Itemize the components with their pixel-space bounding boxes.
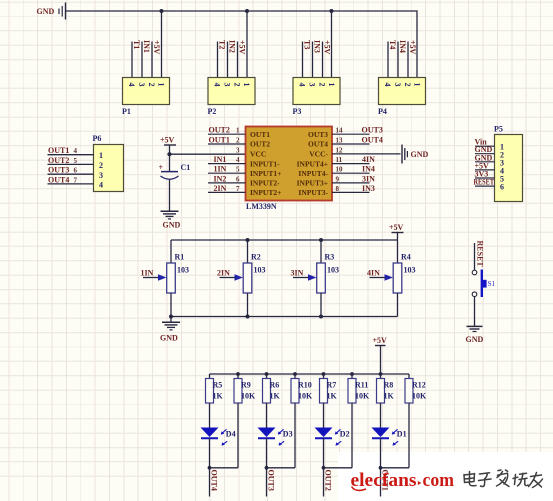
wire OUT3 pair join <box>267 467 296 469</box>
junction OUT1 <box>379 466 383 470</box>
svg-text:D3: D3 <box>283 430 293 439</box>
svg-text:RESET: RESET <box>474 178 495 187</box>
svg-text:D1: D1 <box>397 430 407 439</box>
svg-text:10K: 10K <box>355 392 370 401</box>
junction R3 top <box>319 238 323 242</box>
connector P4 <box>378 78 426 117</box>
wire pot GND drop <box>170 317 172 323</box>
wire P6 pin1 <box>48 154 94 156</box>
wire +5V node to U1 VCC pin3 <box>170 153 246 155</box>
resistor R9 <box>234 374 256 403</box>
svg-text:3: 3 <box>236 146 240 154</box>
svg-text:+5V: +5V <box>152 40 161 55</box>
svg-text:+5V: +5V <box>160 136 175 145</box>
svg-text:2: 2 <box>403 83 412 87</box>
junction R2 bottom <box>246 315 250 319</box>
node +5V at P3 <box>323 40 332 55</box>
wire OUT4 pair join <box>210 467 239 469</box>
svg-text:S1: S1 <box>488 280 496 288</box>
svg-text:elecfans: elecfans <box>351 471 417 491</box>
svg-text:R6: R6 <box>270 381 280 390</box>
node 1IN at U1 pin5 <box>214 165 227 174</box>
wire U1 pin5 <box>208 166 246 174</box>
capacitor C1 <box>159 163 191 179</box>
node T2 <box>218 40 227 49</box>
svg-text:P1: P1 <box>122 107 131 116</box>
node +5V at P1 <box>152 40 161 55</box>
svg-text:9: 9 <box>336 175 340 183</box>
resistor R12 <box>405 374 427 403</box>
svg-text:GND: GND <box>160 334 178 343</box>
svg-text:R3: R3 <box>325 253 335 262</box>
junction R3 bottom <box>319 315 323 319</box>
resistor R4 (pot) <box>370 240 416 317</box>
svg-text:T1: T1 <box>132 40 141 49</box>
svg-text:T4: T4 <box>388 40 397 49</box>
junction at P1 pin1 <box>160 9 164 13</box>
svg-text:IN2: IN2 <box>214 174 227 183</box>
svg-text:R11: R11 <box>355 381 368 390</box>
node 3IN at R3 wiper <box>291 269 304 278</box>
svg-text:OUT3: OUT3 <box>362 126 383 135</box>
wire P1 pin3 stub <box>141 42 143 78</box>
wire U1 pin1 <box>208 127 246 135</box>
svg-text:1: 1 <box>157 83 166 87</box>
svg-text:INPUT4+: INPUT4+ <box>297 159 328 168</box>
svg-text:6: 6 <box>500 183 504 192</box>
svg-text:GND: GND <box>411 150 429 159</box>
node 3IN at U1 pin9 <box>362 174 375 183</box>
svg-text:7: 7 <box>236 185 240 193</box>
LED D1 <box>372 428 407 446</box>
wire P6 pin4 <box>48 183 94 185</box>
wire U1 pin6 <box>208 175 246 183</box>
wire U1 pin11 <box>332 156 370 164</box>
LED D3 <box>258 428 293 446</box>
svg-text:3: 3 <box>308 83 317 87</box>
svg-text:1: 1 <box>413 83 422 87</box>
svg-text:+5V: +5V <box>323 40 332 55</box>
wire OUT2 pair join <box>324 467 353 469</box>
node +5V at P5 pin4 <box>475 161 490 170</box>
svg-text:1: 1 <box>242 83 251 87</box>
svg-text:+5V: +5V <box>408 40 417 55</box>
node OUT1 at U1 pin2 <box>209 136 230 145</box>
wire U1 pin4 <box>208 156 246 164</box>
svg-text:3: 3 <box>223 83 232 87</box>
svg-text:INPUT4-: INPUT4- <box>298 169 328 178</box>
svg-text:4: 4 <box>213 83 222 87</box>
node 1IN at R1 wiper <box>141 269 154 278</box>
svg-text:+: + <box>159 163 164 172</box>
svg-text:1: 1 <box>99 151 103 160</box>
wire U1 pin10 <box>332 166 370 174</box>
svg-text:RESET: RESET <box>476 241 485 268</box>
wire P3 pin2 stub <box>322 42 324 78</box>
junction OUT2 <box>322 466 326 470</box>
svg-text:3: 3 <box>99 171 103 180</box>
svg-text:10K: 10K <box>241 392 256 401</box>
wire OUT1 pair join <box>381 467 410 469</box>
svg-text:13: 13 <box>336 137 344 145</box>
svg-text:11: 11 <box>336 156 343 164</box>
svg-text:3: 3 <box>137 83 146 87</box>
svg-text:7: 7 <box>74 176 78 184</box>
svg-text:4: 4 <box>236 156 240 164</box>
op-amp U1 LM339N body <box>246 127 333 212</box>
resistor R3 (pot) <box>293 240 339 317</box>
junction R2 top <box>246 238 250 242</box>
wire P5 pin4 <box>475 169 495 171</box>
node RESET at P5 pin6 <box>474 178 495 187</box>
svg-text:P3: P3 <box>293 107 302 116</box>
svg-text:IN3: IN3 <box>313 40 322 53</box>
svg-text:2: 2 <box>147 83 156 87</box>
svg-text:1K: 1K <box>384 392 395 401</box>
resistor R6 <box>263 374 281 403</box>
node 2IN at R2 wiper <box>217 269 230 278</box>
pin 3 number <box>236 146 240 154</box>
connector P1 <box>122 78 170 117</box>
svg-text:OUT2: OUT2 <box>209 126 230 135</box>
wire pot top rail <box>171 239 398 241</box>
ground at U1 pin12 <box>402 145 429 164</box>
power +5V at pot rail <box>389 223 404 240</box>
wire P1 pin4 stub <box>131 42 133 78</box>
svg-text:6: 6 <box>236 175 240 183</box>
svg-text:com: com <box>423 471 455 491</box>
junction R8 top <box>379 372 383 376</box>
svg-text:4: 4 <box>383 83 392 87</box>
svg-text:IN4: IN4 <box>398 40 407 53</box>
svg-text:OUT4: OUT4 <box>308 140 328 149</box>
svg-text:3IN: 3IN <box>291 269 304 278</box>
svg-text:5: 5 <box>74 157 78 165</box>
svg-text:2: 2 <box>236 137 240 145</box>
svg-text:1IN: 1IN <box>214 165 227 174</box>
node IN2 <box>228 40 237 53</box>
svg-text:R12: R12 <box>412 381 426 390</box>
svg-text:IN3: IN3 <box>362 184 375 193</box>
LED D4 <box>201 428 236 446</box>
svg-text:4: 4 <box>127 83 136 87</box>
svg-text:4: 4 <box>99 181 103 190</box>
svg-text:10K: 10K <box>298 392 313 401</box>
wire P5 pin3 <box>475 161 495 163</box>
wire R10 down <box>294 403 296 468</box>
wire P5 pin5 <box>475 177 495 179</box>
junction OUT3 <box>265 466 269 470</box>
svg-text:P5: P5 <box>494 125 503 134</box>
svg-text:IN1: IN1 <box>142 40 151 53</box>
ground below C1 <box>161 211 181 229</box>
node OUT3 at P6 <box>48 166 78 175</box>
svg-text:3: 3 <box>393 83 402 87</box>
node GND at P5 pin2 <box>475 145 493 154</box>
svg-text:103: 103 <box>327 266 339 275</box>
svg-text:4IN: 4IN <box>367 269 380 278</box>
power +5V at LED rail <box>373 336 388 374</box>
node OUT4 at P6 <box>48 175 78 184</box>
wire D2 to OUT2 node <box>323 438 325 468</box>
svg-text:4IN: 4IN <box>362 155 375 164</box>
wire OUT3 tail <box>266 468 268 497</box>
svg-text:OUT4: OUT4 <box>209 470 218 491</box>
wire P5 pin6 <box>475 185 495 187</box>
connector P6 <box>93 134 124 192</box>
wire R9 down <box>237 403 239 468</box>
svg-text:INPUT3-: INPUT3- <box>298 188 328 197</box>
ground below pots <box>160 322 180 342</box>
svg-text:2IN: 2IN <box>214 184 227 193</box>
node RESET at S1 <box>476 241 485 268</box>
junction OUT4 <box>208 466 212 470</box>
svg-text:4: 4 <box>74 147 78 155</box>
svg-text:IN2: IN2 <box>228 40 237 53</box>
svg-text:1K: 1K <box>270 392 281 401</box>
svg-text:P4: P4 <box>378 107 387 116</box>
svg-text:1K: 1K <box>327 392 338 401</box>
resistor R10 <box>291 374 313 403</box>
junction R9 top <box>236 372 240 376</box>
svg-text:INPUT3+: INPUT3+ <box>297 179 328 188</box>
junction R7 top <box>322 372 326 376</box>
svg-text:14: 14 <box>336 127 344 135</box>
node 2IN at U1 pin7 <box>214 184 227 193</box>
svg-text:P2: P2 <box>208 107 217 116</box>
wire P5 pin2 <box>475 153 495 155</box>
svg-text:OUT2: OUT2 <box>323 470 332 491</box>
wire D4 to OUT4 node <box>209 438 211 468</box>
svg-text:R9: R9 <box>241 381 251 390</box>
svg-text:C1: C1 <box>181 163 191 172</box>
svg-text:OUT4: OUT4 <box>48 175 69 184</box>
svg-text:103: 103 <box>177 266 189 275</box>
svg-text:INPUT1+: INPUT1+ <box>250 169 281 178</box>
svg-text:1: 1 <box>236 127 240 135</box>
svg-text:VCC-: VCC- <box>309 150 328 159</box>
wire R7 to D2 <box>323 403 325 428</box>
resistor R7 <box>320 374 338 403</box>
node OUT4 <box>209 470 218 491</box>
wire OUT4 tail <box>209 468 211 497</box>
node T1 <box>132 40 141 49</box>
svg-text:1IN: 1IN <box>141 269 154 278</box>
node Vin <box>475 138 488 147</box>
wire P2 pin4 stub <box>217 42 219 78</box>
svg-text:T2: T2 <box>218 40 227 49</box>
wire RESET to S1 <box>474 243 476 270</box>
wire U1 pin9 <box>332 175 370 183</box>
resistor R11 <box>348 374 370 403</box>
resistor R5 <box>206 374 224 403</box>
svg-text:R5: R5 <box>213 381 223 390</box>
svg-text:5: 5 <box>236 166 240 174</box>
node OUT2 at U1 pin1 <box>209 126 230 135</box>
node OUT1 <box>380 470 389 491</box>
node IN2 at U1 pin6 <box>214 174 227 183</box>
wire P4 pin3 stub <box>397 42 399 78</box>
svg-text:R1: R1 <box>175 253 185 262</box>
svg-text:D4: D4 <box>226 430 236 439</box>
node OUT4 at U1 pin13 <box>362 136 383 145</box>
wire D1 to OUT1 node <box>380 438 382 468</box>
watermark chinese text <box>464 470 543 488</box>
connector P3 <box>293 78 341 117</box>
node OUT1 at P6 <box>48 146 78 155</box>
svg-text:GND: GND <box>466 335 484 344</box>
wire R11 down <box>351 403 353 468</box>
elecfans.com logo <box>351 471 455 491</box>
svg-text:INPUT2+: INPUT2+ <box>250 188 281 197</box>
wire U1 pin14 <box>332 127 370 135</box>
svg-text:10: 10 <box>336 166 344 174</box>
wire P1 pin2 stub <box>151 42 153 78</box>
wire top GND rail <box>66 11 418 78</box>
wire P4 pin2 stub <box>407 42 409 78</box>
wire U1 pin12 to ground <box>332 146 401 154</box>
svg-text:OUT3: OUT3 <box>48 166 69 175</box>
junction R1 bottom <box>169 315 173 319</box>
connector P5 <box>494 125 523 202</box>
resistor R2 (pot) <box>220 240 266 317</box>
wire U1 pin7 <box>208 185 246 193</box>
svg-text:1: 1 <box>327 83 336 87</box>
wire R8 to D1 <box>380 403 382 428</box>
node +5V at P4 <box>408 40 417 55</box>
svg-text:+5V: +5V <box>389 223 404 232</box>
svg-text:1K: 1K <box>213 392 224 401</box>
svg-text:R8: R8 <box>384 381 394 390</box>
wire pot bottom rail <box>171 316 398 318</box>
wire OUT2 tail <box>323 468 325 497</box>
wire OUT1 tail <box>380 468 382 497</box>
wire R6 to D3 <box>266 403 268 428</box>
wire P2 pin1 to GND rail <box>246 11 248 78</box>
junction at P2 pin1 <box>245 9 249 13</box>
svg-text:OUT3: OUT3 <box>308 130 328 139</box>
svg-text:OUT1: OUT1 <box>250 130 270 139</box>
wire R12 down <box>408 403 410 468</box>
svg-text:GND: GND <box>163 221 181 230</box>
junction +5V / C1 / VCC <box>167 152 171 156</box>
wire P3 pin4 stub <box>302 42 304 78</box>
junction R11 top <box>350 372 354 376</box>
svg-text:INPUT1-: INPUT1- <box>250 159 280 168</box>
svg-text:2: 2 <box>318 83 327 87</box>
wire R5 to D4 <box>209 403 211 428</box>
svg-text:2: 2 <box>99 161 103 170</box>
wire +5V node down to C1 <box>169 154 171 171</box>
wire C1 to ground <box>169 180 171 212</box>
junction R6 top <box>265 372 269 376</box>
node OUT3 at U1 pin14 <box>362 126 383 135</box>
wire U1 pin13 <box>332 137 370 145</box>
wire P5 pin1 <box>475 145 495 147</box>
wire P6 pin2 <box>48 163 94 165</box>
wire P2 pin2 stub <box>237 42 239 78</box>
svg-text:3IN: 3IN <box>362 174 375 183</box>
node IN4 <box>398 40 407 53</box>
wire P6 pin3 <box>48 173 94 175</box>
svg-text:IN1: IN1 <box>214 155 227 164</box>
svg-text:R10: R10 <box>298 381 312 390</box>
svg-text:103: 103 <box>404 266 416 275</box>
svg-text:R2: R2 <box>251 253 261 262</box>
node 4IN at U1 pin11 <box>362 155 375 164</box>
node OUT2 <box>323 470 332 491</box>
svg-text:OUT4: OUT4 <box>362 136 383 145</box>
node IN1 <box>142 40 151 53</box>
svg-text:+5V: +5V <box>373 336 388 345</box>
node IN3 at U1 pin8 <box>362 184 375 193</box>
svg-text:2IN: 2IN <box>217 269 230 278</box>
svg-text:R4: R4 <box>401 253 411 262</box>
svg-text:GND: GND <box>37 7 55 16</box>
wire U1 pin8 <box>332 185 370 193</box>
node +5V at P2 <box>238 40 247 55</box>
watermark background panel <box>338 452 553 501</box>
node IN4 at U1 pin10 <box>362 165 375 174</box>
svg-text:T3: T3 <box>303 40 312 49</box>
ground GND (top-left power port) <box>37 3 66 20</box>
wire P1 pin1 to GND rail <box>161 11 163 78</box>
node OUT2 at P6 <box>48 156 78 165</box>
wire LED +5V rail <box>210 373 410 375</box>
resistor R8 <box>377 374 395 403</box>
connector P2 <box>208 78 256 117</box>
resistor R1 (pot) <box>143 240 189 317</box>
junction R10 top <box>293 372 297 376</box>
node OUT3 <box>266 470 275 491</box>
svg-text:IN4: IN4 <box>362 165 375 174</box>
svg-text:2: 2 <box>233 83 242 87</box>
junction at P3 pin1 <box>330 9 334 13</box>
wire P3 pin3 stub <box>312 42 314 78</box>
svg-text:4: 4 <box>298 83 307 87</box>
svg-text:R7: R7 <box>327 381 337 390</box>
svg-text:P6: P6 <box>93 134 102 143</box>
svg-text:INPUT2-: INPUT2- <box>250 179 280 188</box>
LED D2 <box>315 428 350 446</box>
svg-text:+5V: +5V <box>238 40 247 55</box>
node 4IN at R4 wiper <box>367 269 380 278</box>
node T4 <box>388 40 397 49</box>
node GND at P5 pin3 <box>475 153 493 162</box>
wire S1 to ground <box>474 297 476 327</box>
svg-text:8: 8 <box>336 185 340 193</box>
svg-text:LM339N: LM339N <box>246 202 277 211</box>
svg-text:OUT3: OUT3 <box>266 470 275 491</box>
power +5V at C1 <box>160 136 176 155</box>
svg-text:12: 12 <box>336 146 344 154</box>
wire D3 to OUT3 node <box>266 438 268 468</box>
svg-text:10K: 10K <box>412 392 427 401</box>
node IN3 <box>313 40 322 53</box>
svg-text:VCC: VCC <box>250 150 266 159</box>
node 3V3 at P5 pin5 <box>475 170 489 179</box>
switch S1 <box>472 270 495 298</box>
svg-text:103: 103 <box>254 266 266 275</box>
svg-text:OUT2: OUT2 <box>48 156 69 165</box>
wire U1 pin2 <box>208 137 246 145</box>
wire P2 pin3 stub <box>227 42 229 78</box>
node T3 <box>303 40 312 49</box>
wire P4 pin4 stub <box>387 42 389 78</box>
svg-text:6: 6 <box>74 167 78 175</box>
ground below S1 <box>466 326 484 344</box>
svg-text:OUT2: OUT2 <box>250 140 270 149</box>
